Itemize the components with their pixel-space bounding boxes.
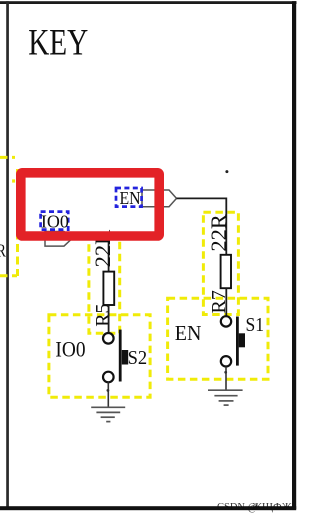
wire EN port to R7 xyxy=(177,198,227,254)
svg-text:ФЖ: ФЖ xyxy=(273,501,292,513)
svg-text:KEY: KEY xyxy=(28,22,88,63)
svg-text:R5: R5 xyxy=(92,303,114,326)
svg-text:R: R xyxy=(0,242,6,261)
yellow highlight box R5 xyxy=(89,237,120,334)
svg-text:IO0: IO0 xyxy=(55,338,85,361)
net label IO0 (blue dashed selection box) xyxy=(41,212,69,232)
switch S1 xyxy=(221,316,245,366)
switch S2 xyxy=(103,330,128,383)
red annotation box xyxy=(21,173,159,236)
wire IO0 port to R5 xyxy=(72,239,109,272)
wire S2 to ground xyxy=(107,382,109,407)
wire R7 to S1 xyxy=(225,288,227,316)
sheet border bottom xyxy=(0,506,296,510)
highlight fragment box at left edge (yellow dashed) xyxy=(0,157,18,276)
svg-text:EN: EN xyxy=(175,323,202,346)
ground (S2) xyxy=(91,407,125,421)
svg-text:ЖЩ: ЖЩ xyxy=(252,501,273,513)
port EN xyxy=(142,190,177,207)
port IO0 xyxy=(45,232,72,247)
resistor R7 xyxy=(221,255,231,288)
net label EN (blue dashed selection box) xyxy=(116,188,142,208)
wire R5 to S2 xyxy=(108,305,110,333)
wire S1 to ground xyxy=(225,367,227,390)
svg-text:S1: S1 xyxy=(246,314,265,336)
yellow highlight box R7 xyxy=(203,212,238,314)
sheet border top xyxy=(0,1,297,4)
svg-text:S2: S2 xyxy=(128,348,148,370)
svg-text:IO0: IO0 xyxy=(41,212,69,232)
junction dot S2 xyxy=(107,389,110,392)
yellow highlight box IO0/S2 xyxy=(49,315,150,398)
dot artifact above wire corner xyxy=(225,170,228,173)
svg-text:22R: 22R xyxy=(206,214,231,252)
junction dot S1 xyxy=(224,371,227,374)
watermark CSDN xyxy=(217,501,292,513)
sheet border right xyxy=(292,1,296,509)
svg-text:EN: EN xyxy=(120,188,141,208)
sheet border left xyxy=(6,1,9,507)
yellow highlight box EN/S1 xyxy=(168,298,268,379)
ground (S1) xyxy=(208,390,243,405)
resistor R5 xyxy=(103,272,114,305)
